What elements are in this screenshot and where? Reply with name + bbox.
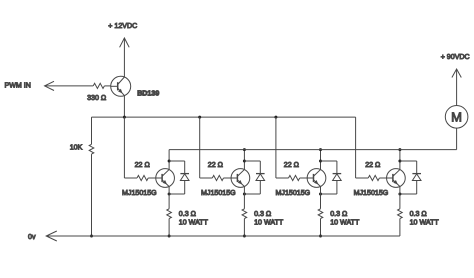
wire: Q4 emitter down bbox=[320, 186, 322, 208]
svg-text:PWM IN: PWM IN bbox=[5, 82, 31, 90]
resistor 0.3 ohm (Q5 emitter) bbox=[398, 209, 403, 219]
wire: base feed to R 22 ohm Q5 bbox=[356, 177, 369, 179]
power arrow +90VDC bbox=[452, 69, 461, 78]
label 10K bbox=[70, 144, 83, 152]
label 0.3 ohm (Q5) bbox=[410, 210, 427, 218]
svg-text:10 WATT: 10 WATT bbox=[330, 218, 360, 226]
wire: PWM IN to R1 bbox=[45, 85, 94, 87]
svg-text:+ 90VDC: + 90VDC bbox=[441, 53, 470, 61]
transistor Q3 MJ15015G bbox=[231, 169, 250, 188]
wire: collector tap to diode D2 bbox=[244, 160, 260, 162]
wire: 0.3 ohm to 0v bus (Q5) bbox=[399, 219, 401, 236]
wire: base feed down Q3 bbox=[199, 117, 201, 178]
label 22 ohm (Q4) bbox=[284, 161, 299, 169]
diode D4 (flyback across Q5) bbox=[412, 161, 421, 194]
svg-text:MJ15015G: MJ15015G bbox=[122, 189, 157, 197]
node: Q4 emitter / diode return bbox=[319, 193, 322, 196]
wire: collector tap to diode D1 bbox=[169, 160, 185, 162]
label 10 WATT (Q5) bbox=[410, 218, 440, 226]
wire: collector tap to diode D4 bbox=[400, 160, 417, 162]
node: base bus tap Q4 bbox=[274, 116, 277, 119]
wire: diode D4 anode to Q5 emitter bbox=[400, 193, 417, 195]
label 10 WATT (Q3) bbox=[254, 218, 284, 226]
svg-text:M: M bbox=[451, 109, 462, 124]
wire: diode D3 anode to Q4 emitter bbox=[321, 193, 337, 195]
svg-text:10 WATT: 10 WATT bbox=[410, 218, 440, 226]
wire: Q1 emitter to base bus bbox=[123, 96, 125, 117]
wire: Q3 collector up to motor bus bbox=[243, 150, 245, 170]
wire: diode D2 anode to Q3 emitter bbox=[244, 193, 260, 195]
wire: base feed to R 22 ohm Q2 bbox=[124, 177, 137, 179]
svg-text:+ 12VDC: + 12VDC bbox=[108, 22, 137, 30]
resistor R2 10K bbox=[89, 144, 94, 154]
label MJ15015G (Q2) bbox=[122, 189, 157, 197]
label 0v bbox=[28, 233, 36, 241]
transistor Q1 BD139 bbox=[111, 76, 131, 96]
wire: Q3 emitter down bbox=[243, 186, 245, 208]
svg-text:10 WATT: 10 WATT bbox=[254, 218, 284, 226]
label 10 WATT (Q4) bbox=[330, 218, 360, 226]
node: 0v bus / Q2 emitter leg bbox=[168, 235, 171, 238]
node: Q4 collector / diode tap bbox=[319, 160, 322, 163]
node: Q3 collector / diode tap bbox=[243, 160, 246, 163]
arrow PWM IN bbox=[45, 81, 54, 90]
wire: 10K to 0v bus bbox=[91, 154, 93, 236]
wire: 0.3 ohm to 0v bus (Q2) bbox=[168, 219, 170, 236]
svg-text:0.3 Ω: 0.3 Ω bbox=[254, 210, 271, 218]
label 0.3 ohm (Q3) bbox=[254, 210, 271, 218]
resistor 22 ohm (Q5 base) bbox=[368, 175, 379, 180]
svg-text:10K: 10K bbox=[70, 144, 83, 152]
wire: diode D1 anode to Q2 emitter bbox=[169, 193, 185, 195]
wire: R 22 ohm to Q4 base bbox=[300, 177, 307, 179]
wire: Q5 emitter down bbox=[399, 186, 401, 208]
power arrow +12VDC bbox=[120, 38, 130, 47]
arrow 0v bbox=[46, 231, 57, 241]
wire: Q5 collector up to motor bus bbox=[399, 150, 401, 170]
label 10 WATT (Q2) bbox=[179, 218, 209, 226]
label 330 ohm bbox=[87, 94, 106, 102]
wire: Q2 emitter down bbox=[168, 186, 170, 208]
wire: R 22 ohm to Q5 base bbox=[379, 177, 386, 179]
wire: +90VDC to motor bbox=[456, 69, 458, 106]
svg-text:22 Ω: 22 Ω bbox=[208, 161, 223, 169]
resistor 22 ohm (Q3 base) bbox=[212, 175, 223, 180]
node: motor bus / Q4 collector bbox=[319, 148, 322, 151]
diode D1 (flyback across Q2) bbox=[180, 161, 189, 194]
svg-text:22 Ω: 22 Ω bbox=[135, 161, 150, 169]
svg-text:BD139: BD139 bbox=[137, 89, 159, 97]
svg-text:10 WATT: 10 WATT bbox=[179, 218, 209, 226]
svg-text:0v: 0v bbox=[28, 233, 36, 241]
wire: +12VDC to Q1 collector bbox=[123, 38, 125, 77]
resistor 0.3 ohm (Q3 emitter) bbox=[242, 209, 247, 219]
wire: base feed to R 22 ohm Q4 bbox=[276, 177, 289, 179]
wire: Q2 collector up to motor bus bbox=[168, 150, 170, 170]
node: Q2 collector / diode tap bbox=[168, 160, 171, 163]
svg-text:0.3 Ω: 0.3 Ω bbox=[410, 210, 427, 218]
node: base bus tap Q3 bbox=[198, 116, 201, 119]
node: 10K / 0v junction bbox=[90, 235, 93, 238]
wire: base feed down Q4 bbox=[275, 117, 277, 178]
node: base bus tap Q2 bbox=[123, 116, 126, 119]
label MJ15015G (Q5) bbox=[354, 189, 389, 197]
node: 0v bus / Q4 emitter leg bbox=[319, 235, 322, 238]
wire: 0.3 ohm to 0v bus (Q3) bbox=[243, 219, 245, 236]
svg-text:0.3 Ω: 0.3 Ω bbox=[179, 210, 196, 218]
label PWM IN bbox=[5, 82, 31, 90]
node: motor bus / Q5 collector bbox=[398, 148, 401, 151]
resistor 22 ohm (Q2 base) bbox=[137, 175, 148, 180]
power label +12VDC bbox=[108, 22, 137, 30]
label MJ15015G (Q4) bbox=[276, 189, 311, 197]
wire: collector tap to diode D3 bbox=[321, 160, 337, 162]
wire: motor to collector bus bbox=[456, 128, 458, 150]
transistor Q4 MJ15015G bbox=[307, 169, 326, 188]
node: Q5 collector / diode tap bbox=[398, 160, 401, 163]
svg-text:MJ15015G: MJ15015G bbox=[201, 189, 236, 197]
wire: R 22 ohm to Q3 base bbox=[224, 177, 232, 179]
label MJ15015G (Q3) bbox=[201, 189, 236, 197]
node: 0v bus / Q3 emitter leg bbox=[243, 235, 246, 238]
transistor Q5 MJ15015G bbox=[387, 169, 406, 188]
diode D2 (flyback across Q3) bbox=[256, 161, 265, 194]
label 22 ohm (Q2) bbox=[135, 161, 150, 169]
label 0.3 ohm (Q4) bbox=[330, 210, 347, 218]
power label +90VDC bbox=[441, 53, 470, 61]
label 22 ohm (Q5) bbox=[365, 161, 380, 169]
svg-text:330 Ω: 330 Ω bbox=[87, 94, 106, 102]
node: motor bus / Q3 collector bbox=[243, 148, 246, 151]
wire: Q4 collector up to motor bus bbox=[320, 150, 322, 170]
wire: base feed down Q2 bbox=[123, 117, 125, 178]
node: Q2 emitter / diode return bbox=[168, 193, 171, 196]
resistor 0.3 ohm (Q4 emitter) bbox=[318, 209, 323, 219]
wire: R 22 ohm to Q2 base bbox=[148, 177, 156, 179]
resistor 22 ohm (Q4 base) bbox=[289, 175, 300, 180]
wire: base feed to R 22 ohm Q3 bbox=[200, 177, 213, 179]
motor M1 bbox=[445, 106, 468, 129]
svg-text:22 Ω: 22 Ω bbox=[284, 161, 299, 169]
svg-text:MJ15015G: MJ15015G bbox=[354, 189, 389, 197]
svg-text:22 Ω: 22 Ω bbox=[365, 161, 380, 169]
svg-text:0.3 Ω: 0.3 Ω bbox=[330, 210, 347, 218]
wire: base feed down Q5 bbox=[355, 117, 357, 178]
label BD139 bbox=[137, 89, 159, 97]
node: Q5 emitter / diode return bbox=[398, 193, 401, 196]
wire: 0v bus bbox=[46, 235, 400, 237]
wire: base drive bus bbox=[92, 116, 356, 118]
wire: 0.3 ohm to 0v bus (Q4) bbox=[320, 219, 322, 236]
node: Q3 emitter / diode return bbox=[243, 193, 246, 196]
label 0.3 ohm (Q2) bbox=[179, 210, 196, 218]
diode D3 (flyback across Q4) bbox=[333, 161, 342, 194]
label 22 ohm (Q3) bbox=[208, 161, 223, 169]
resistor 0.3 ohm (Q2 emitter) bbox=[167, 209, 172, 219]
wire: motor bus (collectors to motor) bbox=[169, 149, 457, 151]
svg-text:MJ15015G: MJ15015G bbox=[276, 189, 311, 197]
wire: bus corner down to 10K bbox=[91, 117, 93, 144]
wire: R1 to Q1 base bbox=[104, 85, 110, 87]
transistor Q2 MJ15015G bbox=[156, 169, 175, 188]
resistor R1 330 ohm bbox=[93, 83, 104, 88]
